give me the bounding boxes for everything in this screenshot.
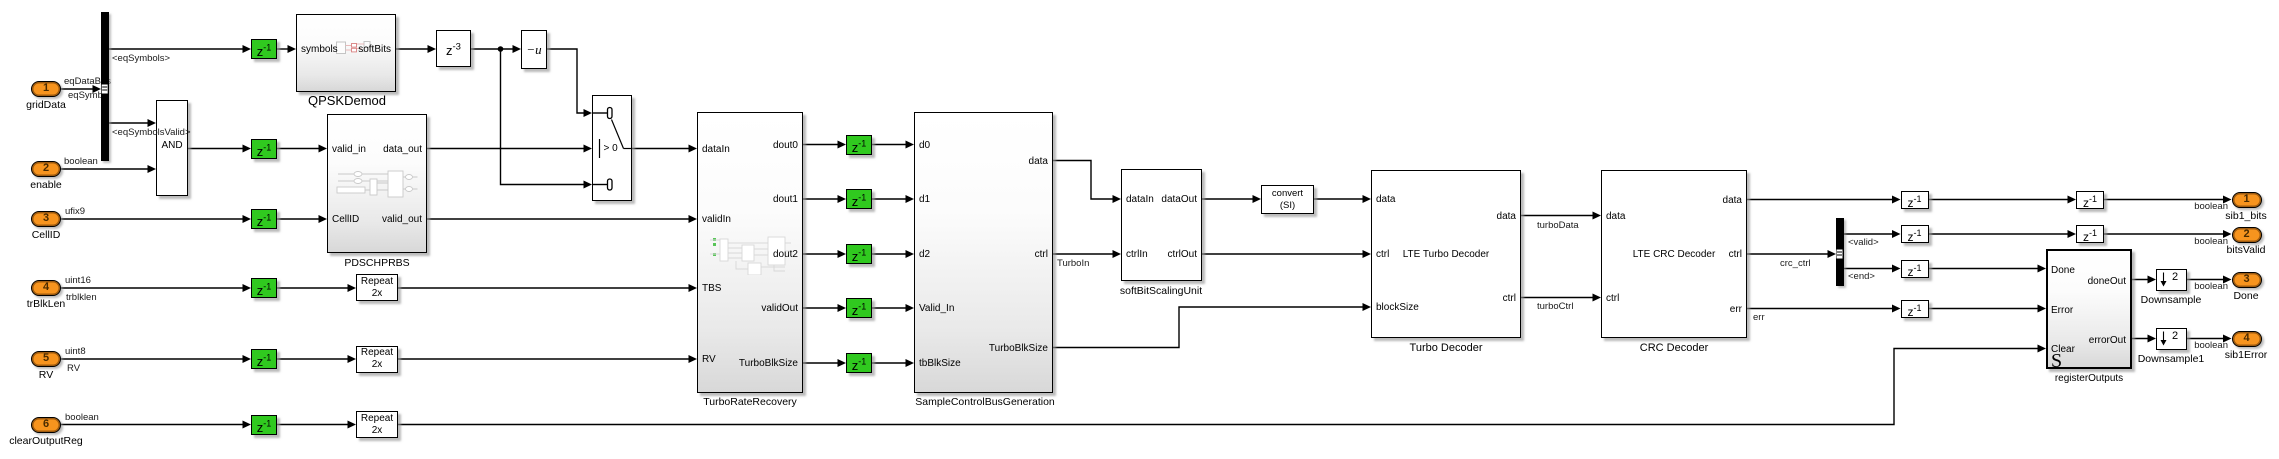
delay Z1i	[1901, 260, 1929, 278]
bus selector 2 crc_ctrl	[1836, 218, 1844, 286]
switch bottom input stub	[592, 184, 608, 186]
wire doneOut to Downsample	[2132, 279, 2150, 281]
wire SampleControlBusGeneration TurboBlkSize to Turbo Decoder blockSize	[1053, 307, 1365, 348]
delay Z2e	[846, 353, 872, 373]
TurboRateRecovery subsystem	[697, 112, 803, 393]
wire TurboBlkSize to Z1 and to tbBlkSize	[803, 362, 908, 364]
switch block	[592, 95, 632, 201]
switch top input stub	[592, 112, 608, 114]
delay Z1l	[2076, 225, 2104, 243]
PDSCHPRBS subsystem	[327, 114, 427, 253]
wire RV to delay Z1e	[61, 358, 245, 360]
Downsample block	[2156, 269, 2187, 291]
delay Z1d	[251, 278, 277, 298]
delay Z2a	[846, 135, 872, 155]
wire dout2 to Z1 and to d2	[803, 253, 908, 255]
wire switch out to TurboRateRecovery dataIn	[632, 148, 691, 150]
wire Repeat2 to TurboRateRecovery RV	[398, 358, 691, 360]
delay Z1b	[251, 139, 277, 159]
delay Z1f	[251, 415, 277, 435]
softBitScalingUnit subsystem	[1121, 169, 1202, 281]
input port 2 enable	[31, 161, 61, 177]
wire enable to AND in2	[61, 168, 150, 170]
Downsample1 block	[2156, 328, 2187, 350]
convert (SI) block	[1261, 185, 1314, 214]
input port 1 gridData	[31, 81, 61, 97]
output port 2 bitsValid	[2232, 227, 2262, 243]
bus selector 1	[101, 12, 109, 162]
input port 5 RV	[31, 351, 61, 367]
wire Z1e to Repeat2	[277, 358, 350, 360]
wire Z1a to QPSKDemod symbols	[277, 48, 290, 50]
output port 3 Done	[2232, 272, 2262, 288]
delay Z1g	[1901, 191, 1929, 209]
switch bottom port capsule	[608, 179, 613, 190]
wire Z1f to Repeat3	[277, 424, 350, 426]
QPSKDemod subsystem	[296, 14, 396, 92]
delay Z1e	[251, 349, 277, 369]
switch top port capsule	[608, 108, 613, 119]
delay Z1c	[251, 209, 277, 229]
wire PDSCHPRBS valid_out to TurboRateRecovery validIn	[427, 218, 691, 220]
wire branch down to switch bottom input	[501, 49, 587, 185]
node junction dot after Z-3	[498, 46, 504, 52]
wire softBitScalingUnit dataOut to convert	[1202, 198, 1255, 200]
wire turboData	[1521, 215, 1595, 217]
wire dout0 to Z1 and to d0	[803, 144, 908, 146]
wire bus selector2 valid out to Z1h	[1844, 233, 1895, 235]
LTE Turbo Decoder block	[1371, 170, 1521, 338]
switch lever diagonal	[612, 120, 624, 149]
input port 3 CellID	[31, 211, 61, 227]
wire bus selector eqSymbolsValid out to AND in1	[109, 122, 151, 124]
delay Z2b	[846, 189, 872, 209]
delay Z2d	[846, 298, 872, 318]
wire bus selector eqSymbols out to delay Z1a	[109, 48, 246, 50]
wire -u out to switch top input	[547, 49, 586, 113]
LTE CRC Decoder block	[1601, 170, 1747, 338]
input port 4 trBlkLen	[31, 280, 61, 296]
wire CRC ctrl out crc_ctrl to bus selector2	[1747, 253, 1830, 255]
wire CRC data out to Z1g	[1747, 199, 1895, 201]
wire bus selector2 end out to Z1i	[1844, 268, 1895, 270]
bus selector 1 input marker	[102, 85, 108, 94]
output port 4 sib1Error	[2232, 331, 2262, 347]
wire Z1h to Z1l	[1929, 233, 2071, 235]
wire Downsample to out port Done	[2187, 279, 2226, 281]
output port 1 sib1_bits	[2232, 192, 2262, 208]
unary minus block -u	[521, 30, 547, 69]
wire Repeat1 to TurboRateRecovery TBS	[398, 287, 691, 289]
wire Z1l to out port bitsValid	[2102, 233, 2226, 235]
wire QPSKDemod softBits to Z-3 delay	[396, 48, 430, 50]
wire Z1b to PDSCHPRBS valid_in	[277, 148, 321, 150]
wire errorOut to Downsample1	[2132, 338, 2150, 340]
wire SampleControlBusGeneration data to softBitScalingUnit dataIn	[1053, 161, 1115, 200]
wire Z1j to registerOutputs Error	[1929, 308, 2041, 310]
delay Z2c	[846, 244, 872, 264]
wire Repeat3 to registerOutputs Clear	[398, 349, 2040, 425]
wire softBitScalingUnit ctrlOut to LTE Turbo Decoder ctrl	[1202, 253, 1365, 255]
Repeat3 2x block	[356, 411, 398, 438]
wire Z1d to Repeat1	[277, 287, 350, 289]
input port 6 clearOutputReg	[31, 417, 61, 433]
wire convert to LTE Turbo Decoder data	[1314, 198, 1365, 200]
delay Z1a	[251, 39, 277, 59]
wire Z1c to PDSCHPRBS CellID	[277, 218, 321, 220]
wire Z1k to out port sib1_bits	[2102, 199, 2226, 201]
delay Z1h	[1901, 225, 1929, 243]
AND logical operator	[156, 100, 188, 196]
wire Downsample1 to out port sib1Error	[2187, 338, 2226, 340]
wire CellID to delay Z1c	[61, 218, 245, 220]
Z-3 delay block	[436, 30, 471, 68]
wire AND out to delay Z1b	[188, 148, 245, 150]
SampleControlBusGeneration subsystem	[914, 112, 1053, 393]
delay Z1j	[1901, 300, 1929, 318]
wire PDSCHPRBS data_out to switch control input	[427, 148, 586, 150]
registerOutputs subsystem	[2046, 249, 2132, 369]
wire trBlkLen to delay Z1d	[61, 287, 245, 289]
wire validOut to Z1 and to Valid_In	[803, 307, 908, 309]
wire turboCtrl	[1521, 297, 1595, 299]
wire clearOutputReg to delay Z1f	[61, 424, 245, 426]
wire SampleControlBusGeneration ctrl to softBitScalingUnit ctrlIn	[1053, 253, 1115, 255]
wire dout1 to Z1 and to d1	[803, 198, 908, 200]
wire Z-3 out to -u block	[471, 48, 515, 50]
arrowheads	[93, 45, 2232, 429]
Downsample icon arrow and 2	[2161, 273, 2167, 346]
bus selector 2 input marker	[1837, 250, 1843, 259]
wire CRC err out to Z1j	[1747, 308, 1895, 310]
wire Z1g to Z1k	[1929, 199, 2071, 201]
wire Z1i to registerOutputs Done	[1929, 268, 2041, 270]
switch threshold tick	[599, 139, 601, 158]
Repeat1 2x block	[356, 274, 398, 301]
delay Z1k	[2076, 191, 2104, 209]
wire gridData to bus selector	[61, 88, 95, 90]
Repeat2 2x block	[356, 346, 398, 373]
